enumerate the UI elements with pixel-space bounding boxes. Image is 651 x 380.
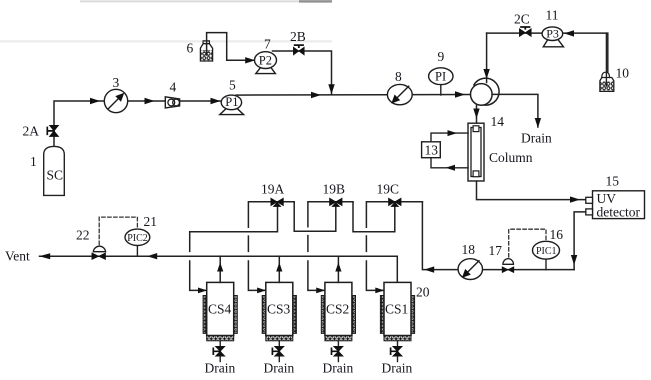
arrow into rotary valve bbox=[455, 91, 465, 97]
arrow gauge3 to check valve 4 bbox=[145, 98, 155, 104]
UV detector 15 bbox=[593, 191, 645, 219]
svg-text:Drain: Drain bbox=[382, 361, 413, 376]
adsorber CS3 bbox=[262, 282, 296, 340]
svg-text:P3: P3 bbox=[546, 27, 559, 41]
valve 2B bbox=[293, 47, 304, 55]
wire 13 to column top bbox=[431, 133, 468, 142]
svg-text:10: 10 bbox=[616, 66, 630, 81]
svg-text:15: 15 bbox=[606, 174, 620, 189]
arrow into P2 bbox=[245, 57, 255, 63]
arrow into CS4 bbox=[198, 288, 207, 294]
column 14 assembly bbox=[468, 123, 484, 181]
arrow on vent line near PIC2 bbox=[147, 253, 157, 259]
valve 2C bbox=[519, 29, 531, 37]
bottle 10 bbox=[600, 78, 614, 92]
valve 19C bbox=[389, 198, 401, 205]
wire down into rotary valve top bbox=[486, 33, 488, 82]
svg-text:17: 17 bbox=[489, 243, 503, 258]
arrow into pump P1 bbox=[211, 98, 221, 104]
svg-text:7: 7 bbox=[264, 37, 271, 52]
controller PIC1 16 bbox=[545, 259, 547, 270]
arrow into pump P3 bbox=[564, 30, 574, 36]
arrow into CS3 bbox=[257, 288, 266, 294]
svg-text:PIC1: PIC1 bbox=[536, 246, 557, 257]
scan artifact top light line bbox=[80, 0, 332, 2]
wire column bottom to UV detector bbox=[477, 181, 586, 200]
drain valve CS4 bbox=[219, 341, 221, 362]
svg-text:PIC2: PIC2 bbox=[127, 233, 148, 244]
wire valve header 19A segment bbox=[248, 202, 294, 291]
svg-text:PI: PI bbox=[435, 69, 446, 83]
drain valve CS2 bbox=[337, 341, 339, 362]
cylinder SC 1 bbox=[44, 146, 65, 195]
adsorber CS1 bbox=[380, 282, 414, 340]
svg-text:6: 6 bbox=[187, 41, 194, 56]
wire P1 discharge to rotary valve bbox=[236, 94, 470, 97]
arrow before 2B junction bbox=[311, 92, 321, 98]
check valve 4 bbox=[165, 97, 179, 108]
arrow up CS3 riser bbox=[276, 263, 282, 272]
wire vent line bbox=[40, 256, 398, 282]
scan artifact faint streak bbox=[0, 40, 332, 42]
svg-text:2C: 2C bbox=[514, 12, 530, 27]
svg-text:4: 4 bbox=[170, 80, 177, 95]
svg-text:2A: 2A bbox=[23, 124, 40, 139]
arrow toward 13 bbox=[446, 165, 456, 171]
svg-text:18: 18 bbox=[462, 242, 476, 257]
wire 19B right to 19C bottom bbox=[353, 202, 395, 232]
arrow into gauge 3 bbox=[90, 98, 100, 104]
arrow vent end bbox=[39, 253, 50, 259]
svg-text:13: 13 bbox=[425, 143, 439, 158]
svg-text:Column: Column bbox=[489, 150, 533, 165]
wire CS3 top riser bbox=[278, 256, 280, 282]
svg-text:P2: P2 bbox=[259, 53, 272, 67]
arrow into column bbox=[473, 109, 479, 119]
bottle 6 bbox=[200, 44, 212, 61]
controller PIC2 21 bbox=[136, 245, 138, 256]
control valve 17 bbox=[503, 259, 514, 265]
wire 19A bottom to CS4 inlet bbox=[190, 206, 278, 290]
wire rotary valve to drain bbox=[492, 94, 538, 127]
wire column to 13 bottom bbox=[431, 158, 468, 168]
svg-text:CS2: CS2 bbox=[326, 302, 349, 317]
svg-text:11: 11 bbox=[546, 8, 559, 23]
arrow into column jacket bbox=[448, 130, 458, 136]
svg-text:CS1: CS1 bbox=[385, 302, 408, 317]
svg-text:Drain: Drain bbox=[264, 361, 295, 376]
adsorber CS2 bbox=[321, 282, 355, 340]
gauge 3 bbox=[104, 89, 127, 112]
damper 8 bbox=[387, 84, 412, 104]
wire P3 line top bbox=[487, 33, 608, 72]
valve 2A bbox=[49, 125, 58, 136]
wire 19A right to 19B bottom bbox=[294, 202, 336, 232]
wire rotary valve to column bbox=[476, 105, 478, 123]
svg-text:19C: 19C bbox=[377, 182, 400, 197]
wire valve header 19B segment bbox=[308, 202, 353, 291]
svg-text:detector: detector bbox=[597, 205, 641, 220]
valve 19B bbox=[330, 198, 342, 205]
scan artifact top dark segment bbox=[299, 0, 332, 2]
wire UV outlet down to return line bbox=[574, 212, 586, 270]
svg-text:16: 16 bbox=[550, 227, 564, 242]
valve 19A bbox=[271, 198, 283, 205]
svg-text:22: 22 bbox=[76, 228, 90, 243]
svg-text:8: 8 bbox=[395, 69, 402, 84]
pump P1 bbox=[220, 108, 244, 115]
svg-text:CS4: CS4 bbox=[208, 302, 232, 317]
svg-text:19B: 19B bbox=[323, 182, 346, 197]
svg-text:3: 3 bbox=[113, 75, 120, 90]
svg-text:5: 5 bbox=[229, 78, 236, 93]
pump P2 bbox=[256, 68, 276, 74]
svg-text:2B: 2B bbox=[290, 29, 306, 44]
svg-text:SC: SC bbox=[47, 168, 64, 183]
arrow left on return line bbox=[424, 266, 434, 272]
adsorber CS4 bbox=[203, 282, 237, 340]
wire valve header 19C segment bbox=[366, 202, 422, 291]
wire CS4 top riser bbox=[219, 256, 221, 282]
control valve 22 bbox=[93, 246, 105, 252]
arrow down at junction bbox=[328, 84, 334, 94]
svg-text:Drain: Drain bbox=[323, 361, 354, 376]
svg-text:Drain: Drain bbox=[521, 131, 552, 146]
wire return line to riser bbox=[422, 202, 574, 270]
svg-text:1: 1 bbox=[30, 154, 37, 169]
arrow into CS1 bbox=[375, 288, 384, 294]
svg-text:Drain: Drain bbox=[205, 361, 236, 376]
svg-text:21: 21 bbox=[144, 214, 158, 229]
thermostat box 13 bbox=[422, 142, 441, 158]
svg-text:14: 14 bbox=[491, 114, 505, 129]
rotary injection valve bbox=[474, 78, 499, 105]
arrow up CS4 riser bbox=[217, 263, 223, 272]
damper 18 bbox=[458, 259, 482, 280]
svg-text:CS3: CS3 bbox=[267, 302, 291, 317]
svg-text:19A: 19A bbox=[261, 182, 285, 197]
svg-text:P1: P1 bbox=[225, 95, 238, 109]
pump P3 bbox=[543, 40, 563, 47]
wire bottle6 to pump P2 bbox=[207, 33, 255, 61]
arrow down drain bbox=[535, 118, 541, 128]
svg-text:20: 20 bbox=[416, 285, 430, 300]
arrow down on return bbox=[571, 255, 577, 265]
wire CS2 top riser bbox=[337, 256, 339, 282]
svg-text:9: 9 bbox=[438, 49, 445, 64]
drain valve CS3 bbox=[278, 341, 280, 362]
arrow into CS2 bbox=[316, 288, 325, 294]
arrow into UV detector bbox=[570, 196, 580, 202]
gauge PI 9 bbox=[440, 85, 442, 95]
arrow up CS2 riser bbox=[335, 263, 341, 272]
drain valve CS1 bbox=[397, 341, 399, 362]
wire P2 to junction via valve 2B bbox=[273, 51, 332, 94]
svg-text:Vent: Vent bbox=[5, 249, 30, 264]
arrow into rotary valve top bbox=[483, 69, 489, 79]
wire cylinder to main line bbox=[54, 101, 233, 146]
